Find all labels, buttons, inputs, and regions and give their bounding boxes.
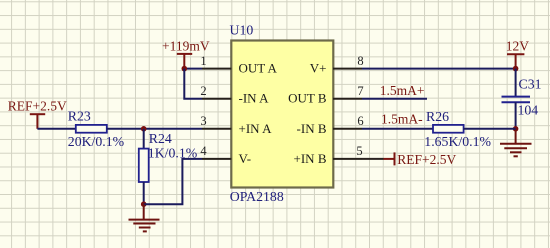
svg-text:OUT A: OUT A (239, 61, 278, 76)
svg-text:C31: C31 (519, 76, 542, 91)
node junction pins 1-2 (182, 66, 188, 72)
pin 8 stub (333, 68, 362, 70)
power port +119mV (177, 54, 192, 69)
pin 7 stub (333, 98, 362, 100)
svg-text:8: 8 (357, 54, 363, 68)
wire junction to pin 1 (184, 68, 202, 70)
wire junction to C31 top (515, 69, 517, 97)
pin 1 stub (202, 68, 231, 70)
power port REF+2.5V left (30, 114, 45, 129)
svg-text:R24: R24 (149, 131, 172, 146)
node junction pin3/R24 (141, 126, 147, 132)
pin 3 stub (202, 128, 231, 130)
capacitor C31 (502, 97, 531, 103)
pin 4 stub (202, 158, 231, 160)
wire C31 bottom to junction (515, 102, 517, 129)
svg-text:REF+2.5V: REF+2.5V (397, 152, 456, 167)
svg-text:12V: 12V (506, 38, 530, 53)
svg-text:-IN A: -IN A (239, 91, 270, 106)
svg-text:OPA2188: OPA2188 (230, 189, 284, 204)
pin 2 stub (202, 98, 231, 100)
svg-text:R23: R23 (68, 108, 91, 123)
svg-text:4: 4 (200, 144, 207, 158)
node junction C31/R26/ground (513, 126, 519, 132)
svg-text:1.5mA+: 1.5mA+ (380, 83, 425, 98)
ground GND left (129, 204, 160, 231)
svg-text:+119mV: +119mV (162, 38, 210, 53)
pin 6 stub (333, 128, 362, 130)
resistor R24 (139, 149, 149, 182)
wire junction to R24 top (143, 129, 145, 149)
svg-text:20K/0.1%: 20K/0.1% (68, 134, 125, 149)
pin 5 stub (333, 158, 362, 160)
svg-text:1: 1 (200, 54, 206, 68)
svg-text:R26: R26 (426, 109, 449, 124)
wire pin 5 to power port (362, 158, 384, 160)
svg-text:5: 5 (356, 144, 362, 158)
node junction pin8/12V/C31 (513, 66, 519, 72)
ground GND right (500, 129, 532, 157)
svg-text:3: 3 (200, 114, 206, 128)
svg-text:1.5mA-: 1.5mA- (381, 111, 423, 126)
svg-text:+IN A: +IN A (239, 121, 273, 136)
op-amp U10 body (231, 41, 333, 188)
wire power port to R23 (37, 128, 75, 130)
svg-text:104: 104 (518, 102, 539, 117)
svg-text:+IN B: +IN B (294, 151, 327, 166)
resistor R23 (76, 125, 107, 133)
resistor R26 (433, 125, 464, 133)
wire R23 to pin 3 (107, 128, 202, 130)
wire pin 6 to R26 (362, 128, 433, 130)
svg-text:1.65K/0.1%: 1.65K/0.1% (424, 134, 491, 149)
svg-text:V+: V+ (310, 61, 327, 76)
svg-text:OUT B: OUT B (288, 91, 327, 106)
svg-text:6: 6 (357, 114, 363, 128)
wire R26 to junction (464, 128, 516, 130)
node junction R24/pin4/ground (141, 201, 147, 207)
wire pin 8 to 12V junction (362, 68, 516, 70)
wire R24 bottom to ground junction (143, 182, 145, 204)
svg-text:REF+2.5V: REF+2.5V (8, 98, 67, 113)
power port 12V (507, 54, 524, 68)
power port REF+2.5V right (384, 152, 395, 165)
wire pin 7 net 1.5mA+ (362, 98, 427, 100)
wire junction to pin 4 (144, 159, 202, 204)
wire vertical junction to pin 2 (184, 69, 202, 99)
svg-text:-IN B: -IN B (297, 121, 327, 136)
svg-text:2: 2 (200, 84, 206, 98)
svg-text:V-: V- (239, 151, 252, 166)
svg-text:7: 7 (357, 84, 363, 98)
svg-text:U10: U10 (230, 23, 254, 38)
